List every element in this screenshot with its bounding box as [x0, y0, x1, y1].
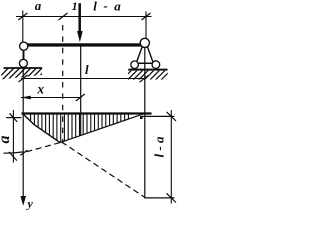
wire influence baseline	[22, 112, 152, 114]
node tick extension end left axis	[20, 150, 27, 155]
ground line right	[128, 69, 167, 71]
roller wheel right	[152, 61, 160, 69]
wire top dimension line	[16, 16, 152, 18]
force arrow P=1	[78, 3, 81, 32]
influence line right branch	[60, 113, 145, 142]
wire extension stub upper-left	[6, 117, 22, 119]
y-axis arrowhead	[20, 196, 26, 206]
x arrowhead	[21, 96, 31, 100]
svg-text:x: x	[36, 81, 44, 96]
support roller circle	[140, 38, 149, 47]
node blob at baseline right	[140, 116, 143, 119]
node tick l-right	[140, 75, 149, 82]
wire left extension line	[22, 10, 24, 43]
influence hatching	[31, 114, 129, 142]
svg-text:l: l	[85, 62, 89, 77]
node section dashed axis	[62, 25, 64, 144]
support pin upper circle	[20, 42, 28, 50]
node tick x-right	[76, 94, 85, 101]
ground hatching left	[0, 68, 48, 81]
node tick top-left	[18, 13, 27, 20]
node tick top-right	[142, 13, 151, 20]
wire pin link	[23, 50, 25, 60]
svg-text:l: l	[93, 0, 97, 14]
node tick la-bottom	[167, 193, 177, 202]
node tick a-bottom	[9, 152, 17, 161]
influence line left branch	[23, 114, 60, 143]
dimension l line	[21, 78, 145, 80]
right branch extension dashed	[24, 143, 61, 153]
node tick top-section	[59, 13, 68, 20]
svg-text:a: a	[35, 0, 42, 13]
support pin lower circle	[19, 59, 27, 67]
wire extension stub upper-right	[142, 115, 175, 117]
dimension x line	[21, 97, 80, 99]
support roller axis	[144, 48, 146, 198]
ground hatching right	[122, 70, 171, 79]
support roller triangle	[136, 47, 153, 63]
support roller base	[133, 62, 157, 64]
svg-text:y: y	[26, 196, 34, 210]
node tick a-top	[10, 113, 18, 122]
svg-text:a: a	[0, 136, 13, 144]
svg-text:l - a: l - a	[151, 136, 166, 157]
dimension a line	[12, 110, 14, 163]
node tick l-left	[19, 75, 28, 82]
svg-text:-: -	[103, 0, 107, 13]
svg-text:a: a	[114, 0, 121, 14]
wire extension stub lower-left	[4, 152, 24, 153]
wire extension stub lower-right	[144, 197, 174, 199]
roller wheel left	[131, 61, 139, 69]
wire right extension line	[145, 11, 147, 40]
wire beam	[23, 43, 141, 46]
node tick la-top	[167, 112, 176, 121]
dimension l-a line	[170, 110, 172, 204]
wire load axis line	[80, 46, 82, 136]
ground line left	[4, 67, 43, 69]
svg-text:1: 1	[72, 0, 78, 13]
left branch extension dashed	[62, 142, 145, 198]
axis y left support	[22, 68, 24, 198]
